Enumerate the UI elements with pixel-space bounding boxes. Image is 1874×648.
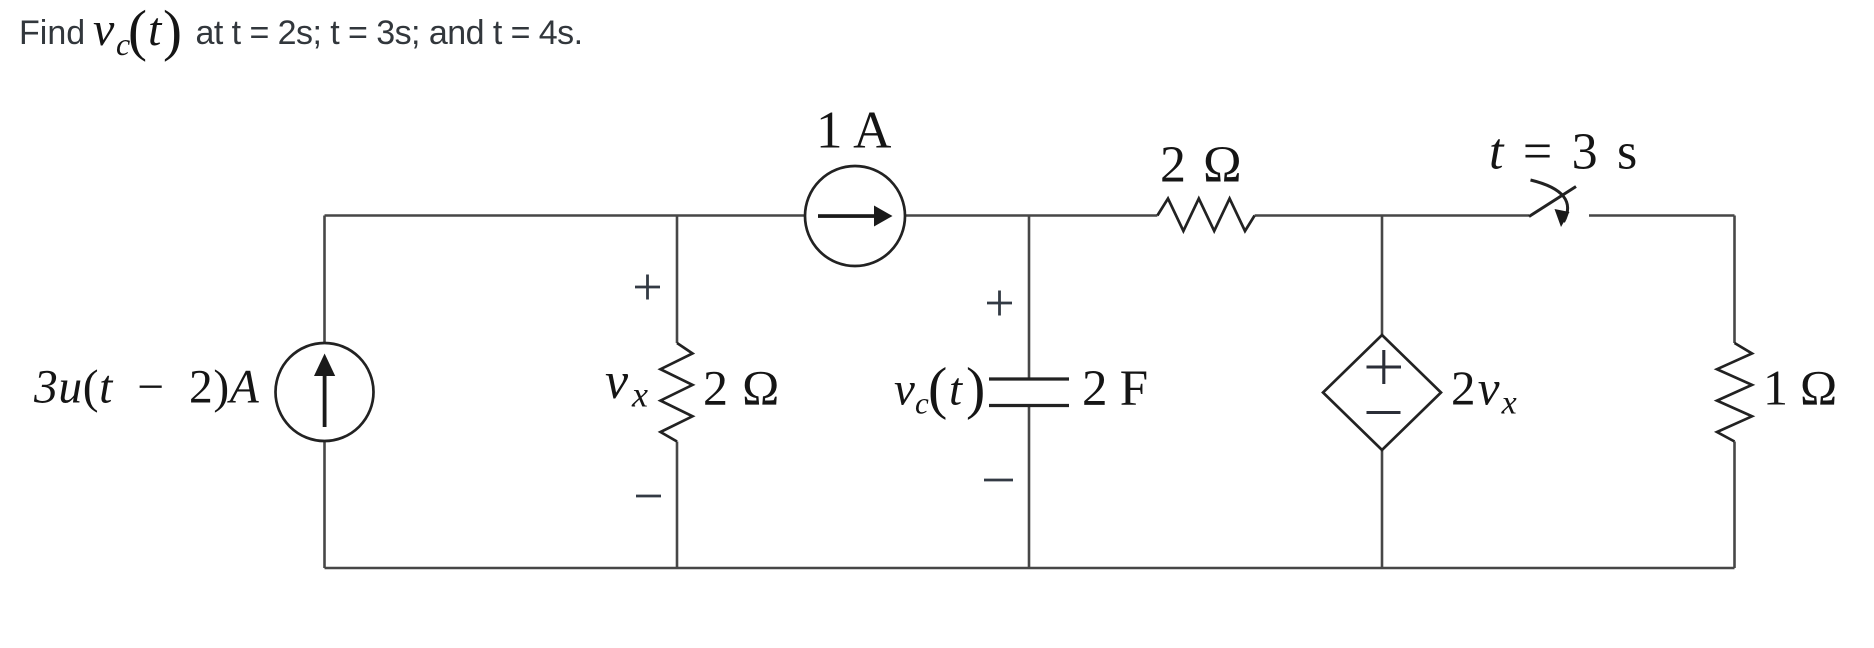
svg-text:1 Ω: 1 Ω [1763,360,1838,416]
svg-text:): ) [163,0,182,63]
svg-text:v: v [93,3,115,56]
svg-text:c: c [915,386,929,421]
svg-text:): ) [966,356,985,421]
svg-text:t = 3 s: t = 3 s [1489,124,1640,181]
svg-text:t: t [148,3,163,56]
svg-text:2 F: 2 F [1082,361,1149,417]
svg-text:v: v [605,353,629,410]
svg-text:t: t [949,364,963,416]
svg-text:3u(t − 2)A: 3u(t − 2)A [33,362,260,414]
svg-text:2vx: 2vx [1451,361,1519,422]
svg-text:(: ( [928,356,947,421]
svg-text:2 Ω: 2 Ω [703,360,780,416]
svg-text:x: x [631,375,648,415]
svg-text:v: v [894,364,915,416]
svg-text:1 A: 1 A [816,102,891,160]
svg-text:2 Ω: 2 Ω [1160,137,1244,194]
svg-text:(: ( [128,0,147,63]
